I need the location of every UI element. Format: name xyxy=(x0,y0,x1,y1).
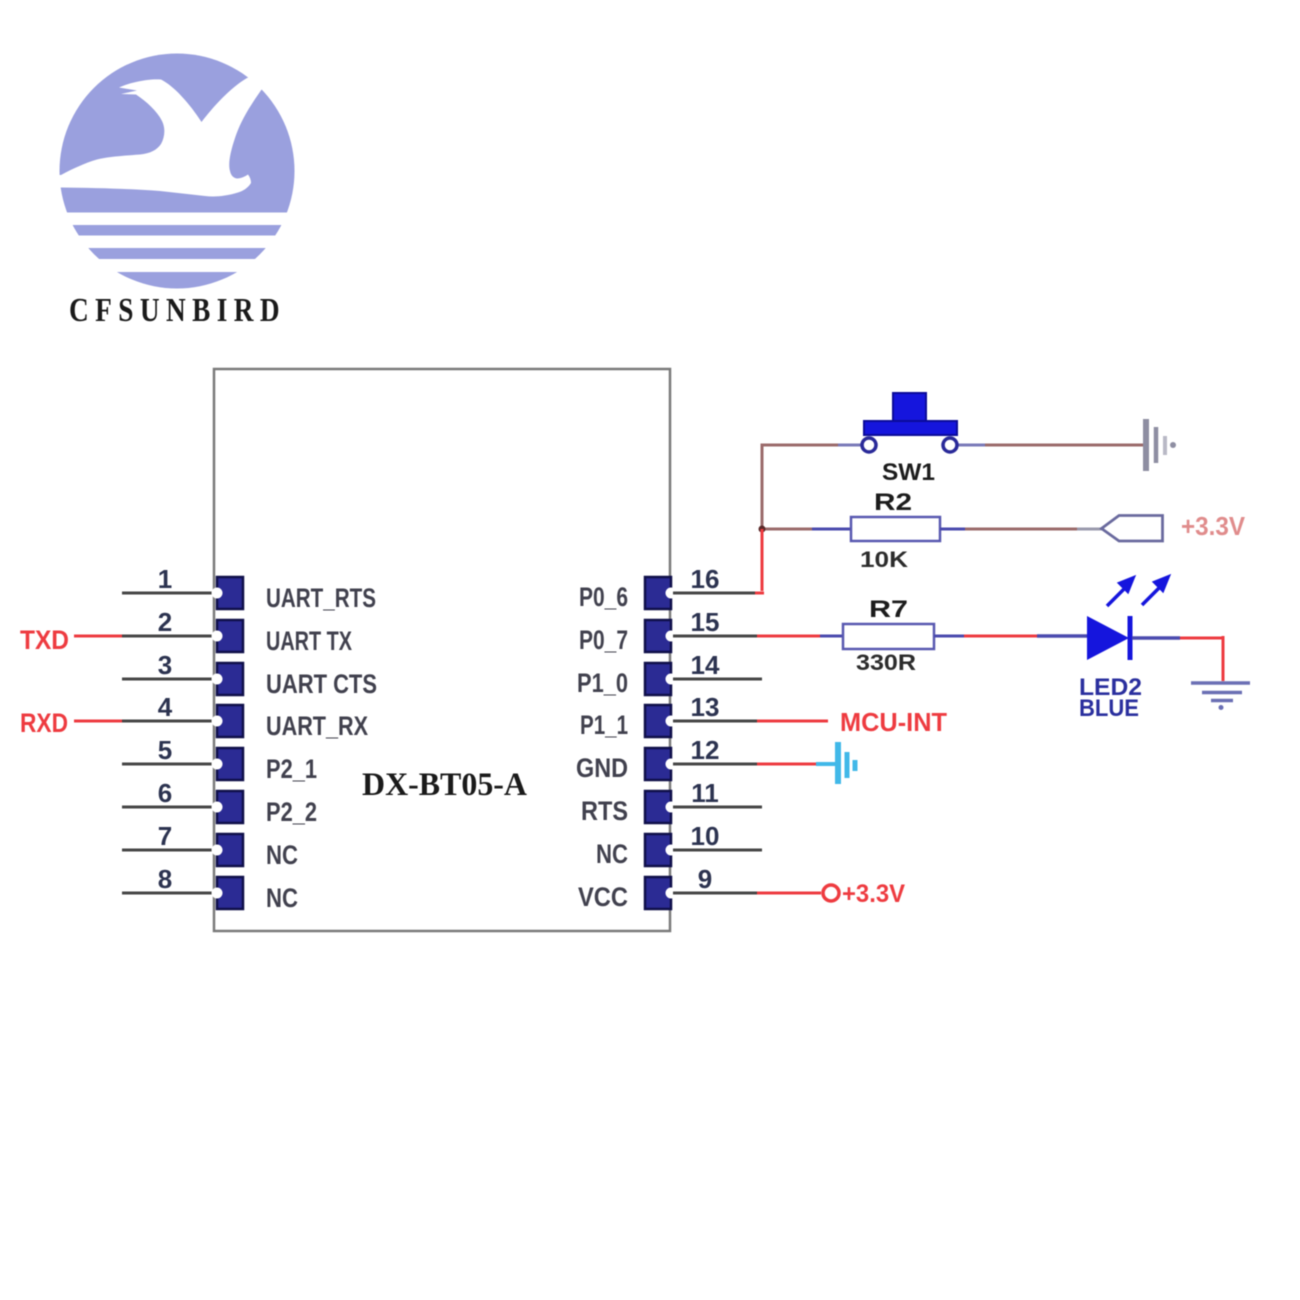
svg-text:R7: R7 xyxy=(869,596,908,623)
svg-text:16: 16 xyxy=(691,564,720,594)
svg-text:UART CTS: UART CTS xyxy=(266,669,377,699)
svg-text:2: 2 xyxy=(158,607,172,637)
svg-text:+3.3V: +3.3V xyxy=(842,880,905,908)
svg-text:4: 4 xyxy=(158,692,173,722)
svg-text:8: 8 xyxy=(158,864,172,894)
svg-text:P2_2: P2_2 xyxy=(266,797,317,827)
svg-text:BLUE: BLUE xyxy=(1079,695,1139,722)
svg-text:CFSUNBIRD: CFSUNBIRD xyxy=(69,292,286,329)
svg-text:TXD: TXD xyxy=(20,625,69,655)
svg-text:9: 9 xyxy=(698,864,712,894)
svg-text:3: 3 xyxy=(158,650,172,680)
svg-text:15: 15 xyxy=(691,607,720,637)
svg-text:NC: NC xyxy=(266,840,298,870)
svg-text:1: 1 xyxy=(158,564,172,594)
svg-text:P0_6: P0_6 xyxy=(579,582,628,612)
svg-text:P2_1: P2_1 xyxy=(266,754,317,784)
svg-text:RTS: RTS xyxy=(581,796,628,826)
svg-text:12: 12 xyxy=(691,735,720,765)
svg-text:14: 14 xyxy=(691,650,720,680)
svg-text:RXD: RXD xyxy=(20,708,68,738)
svg-text:+3.3V: +3.3V xyxy=(1181,511,1246,541)
svg-text:UART_RTS: UART_RTS xyxy=(266,583,376,613)
svg-text:UART TX: UART TX xyxy=(266,626,352,656)
svg-text:11: 11 xyxy=(691,778,719,808)
svg-text:VCC: VCC xyxy=(578,882,628,912)
svg-text:6: 6 xyxy=(158,778,172,808)
svg-text:P1_1: P1_1 xyxy=(580,710,628,740)
svg-text:DX-BT05-A: DX-BT05-A xyxy=(362,767,527,803)
svg-text:R2: R2 xyxy=(874,489,912,516)
svg-text:P1_0: P1_0 xyxy=(577,668,628,698)
svg-text:GND: GND xyxy=(576,753,628,783)
svg-text:MCU-INT: MCU-INT xyxy=(840,707,947,737)
svg-text:NC: NC xyxy=(266,883,298,913)
svg-text:5: 5 xyxy=(158,735,172,765)
svg-text:NC: NC xyxy=(596,839,628,869)
svg-text:SW1: SW1 xyxy=(882,459,935,486)
svg-text:P0_7: P0_7 xyxy=(579,625,628,655)
svg-text:330R: 330R xyxy=(856,650,916,675)
svg-text:7: 7 xyxy=(158,821,172,851)
svg-text:10K: 10K xyxy=(860,547,908,572)
svg-text:10: 10 xyxy=(691,821,720,851)
svg-text:13: 13 xyxy=(691,692,720,722)
svg-text:UART_RX: UART_RX xyxy=(266,711,368,741)
